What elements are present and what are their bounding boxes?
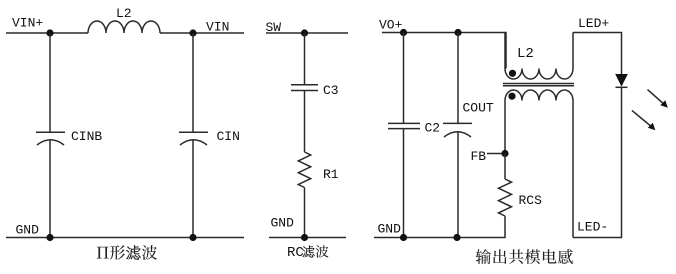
svg-text:GND: GND bbox=[16, 223, 40, 238]
wire: CIN to ground rail bbox=[192, 140, 194, 239]
junction dot at SW bbox=[301, 29, 308, 36]
svg-text:C2: C2 bbox=[425, 121, 441, 136]
svg-text:L2: L2 bbox=[116, 6, 132, 21]
wire: SW rail bbox=[266, 32, 348, 34]
common-mode choke L2 top winding bbox=[505, 33, 573, 80]
capacitor COUT (polarized) bbox=[443, 123, 472, 137]
wire: choke top winding to LED+ corner bbox=[573, 33, 622, 75]
wire: VIN node down to CIN bbox=[192, 33, 194, 132]
common-mode choke L2 bottom winding bbox=[505, 90, 573, 238]
LED diode bbox=[616, 75, 628, 88]
wire: SW node down to C3 bbox=[304, 33, 306, 85]
svg-text:L2: L2 bbox=[517, 46, 534, 62]
svg-text:FB: FB bbox=[471, 149, 487, 164]
svg-text:RCS: RCS bbox=[519, 193, 543, 208]
capacitor CIN (polarized) bbox=[179, 132, 208, 145]
wire: LED cathode down and left to choke return bbox=[573, 87, 622, 237]
svg-text:R1: R1 bbox=[323, 167, 339, 182]
polarity dot top winding bbox=[509, 70, 516, 77]
junction dot ground at COUT bbox=[453, 234, 460, 241]
choke core line 2 bbox=[503, 85, 574, 87]
junction dot at VIN bbox=[189, 29, 196, 36]
junction dot ground right bbox=[189, 234, 196, 241]
LED light arrow 1 bbox=[648, 90, 668, 108]
svg-text:LED-: LED- bbox=[577, 220, 608, 235]
caption: output common-mode choke (Chinese) bbox=[476, 249, 573, 264]
polarity dot bottom winding bbox=[508, 93, 515, 100]
FB stub wire bbox=[487, 153, 505, 155]
svg-text:VO+: VO+ bbox=[379, 18, 403, 33]
capacitor C3 bbox=[291, 85, 318, 91]
capacitor C2 bbox=[388, 123, 420, 128]
wire: C2 to ground rail bbox=[403, 129, 405, 238]
wire: FB node to RCS bbox=[504, 154, 506, 180]
wire: VO+ down to C2 bbox=[403, 33, 405, 124]
wire: RCS to ground rail corner bbox=[374, 216, 505, 238]
wire: R1 to ground rail bbox=[304, 188, 306, 239]
svg-text:CINB: CINB bbox=[71, 129, 102, 144]
wire: VO+ down to COUT bbox=[457, 33, 459, 124]
ground rail (RC filter) bbox=[269, 237, 346, 239]
svg-text:COUT: COUT bbox=[463, 101, 494, 116]
svg-text:SW: SW bbox=[266, 20, 282, 35]
svg-text:VIN: VIN bbox=[206, 20, 229, 35]
wire: C3 to R1 bbox=[304, 91, 306, 153]
wire: CINB to ground rail bbox=[49, 140, 51, 239]
junction dot FB bbox=[501, 150, 508, 157]
resistor RCS bbox=[499, 179, 512, 216]
junction dot at VIN+ bbox=[46, 29, 53, 36]
junction dot VO+ at COUT bbox=[454, 29, 461, 36]
resistor R1 bbox=[298, 152, 310, 188]
junction dot VO+ at C2 bbox=[400, 29, 407, 36]
svg-text:GND: GND bbox=[271, 216, 295, 231]
svg-text:GND: GND bbox=[378, 222, 402, 237]
junction dot ground left bbox=[46, 234, 53, 241]
wire: COUT to ground rail bbox=[457, 131, 459, 238]
LED light arrow 2 bbox=[632, 110, 655, 130]
junction dot ground RC bbox=[301, 234, 308, 241]
junction dot ground at C2 bbox=[400, 234, 407, 241]
svg-text:LED+: LED+ bbox=[578, 16, 609, 31]
wire: VO+ rail with corner down to choke bbox=[382, 33, 506, 69]
wire: inductor to VIN node bbox=[160, 32, 244, 34]
wire: VIN+ rail to inductor bbox=[6, 32, 88, 34]
svg-text:VIN+: VIN+ bbox=[12, 16, 43, 31]
capacitor CINB (polarized) bbox=[36, 132, 65, 145]
inductor L2 (pi filter) bbox=[88, 21, 160, 33]
svg-text:CIN: CIN bbox=[217, 129, 240, 144]
ground rail (pi filter) bbox=[6, 237, 244, 239]
choke core line 1 bbox=[503, 83, 574, 85]
svg-text:C3: C3 bbox=[323, 83, 339, 98]
wire: VIN+ node down to CINB bbox=[49, 33, 51, 132]
svg-text:RC: RC bbox=[287, 245, 304, 261]
caption: pi filter (Chinese) bbox=[97, 245, 157, 260]
